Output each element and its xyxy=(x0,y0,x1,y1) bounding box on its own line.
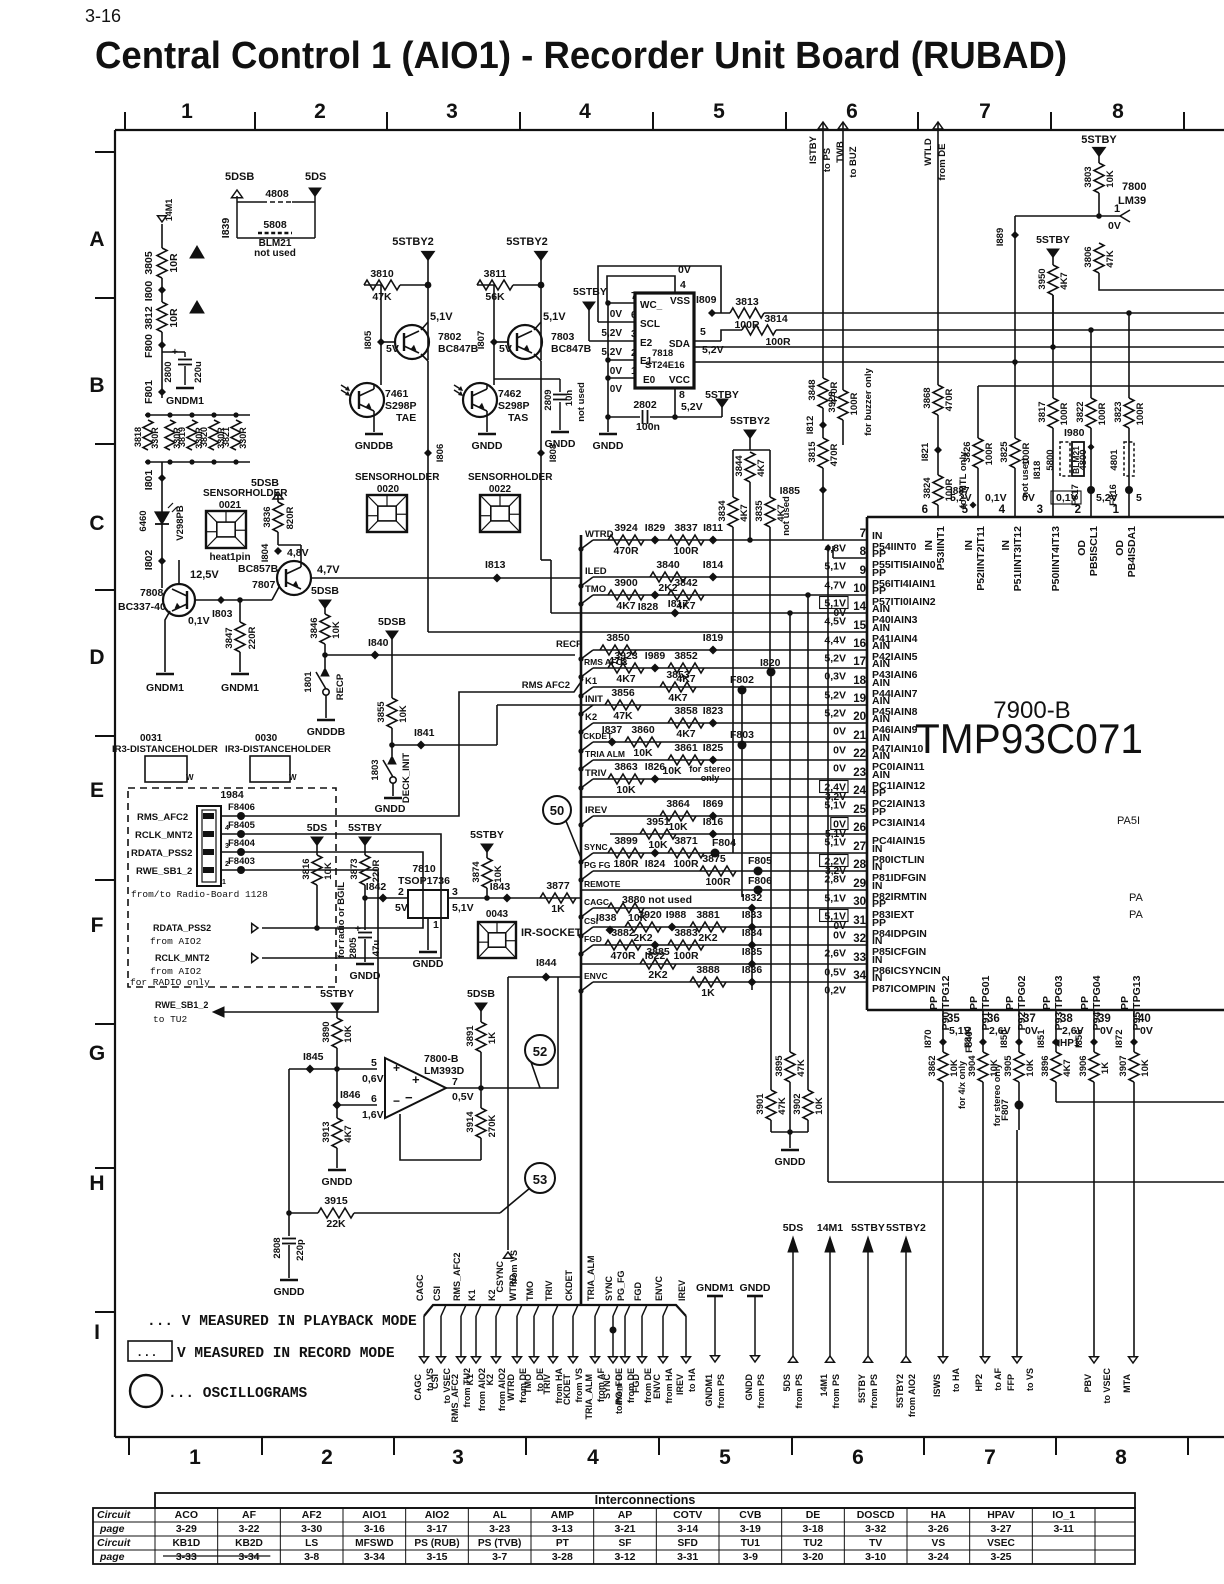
node F8403 xyxy=(237,866,245,874)
svg-text:I814: I814 xyxy=(703,559,724,571)
svg-text:3-34: 3-34 xyxy=(364,1551,385,1563)
resistor 3842 4K7 xyxy=(668,590,704,600)
svg-text:3811: 3811 xyxy=(484,268,507,280)
svg-text:for 4/x only: for 4/x only xyxy=(957,1061,967,1109)
wire I805 vertical xyxy=(380,285,382,385)
svg-text:0,6V: 0,6V xyxy=(362,1073,384,1085)
svg-text:1: 1 xyxy=(181,100,193,123)
svg-text:3856: 3856 xyxy=(611,687,635,699)
svg-text:3806: 3806 xyxy=(1083,246,1094,267)
ground GNDD under 2809 xyxy=(551,431,569,434)
svg-text:0031: 0031 xyxy=(140,733,163,744)
svg-text:PP: PP xyxy=(968,996,980,1010)
table grid xyxy=(93,1508,1135,1564)
svg-text:52: 52 xyxy=(533,1044,547,1059)
svg-text:K1: K1 xyxy=(467,1289,477,1301)
svg-text:4K7: 4K7 xyxy=(668,692,687,704)
svg-text:6: 6 xyxy=(852,1446,864,1469)
node I841 xyxy=(417,741,426,750)
node I808 xyxy=(537,449,545,457)
svg-text:3-24: 3-24 xyxy=(928,1551,949,1563)
wire drop PG_FG xyxy=(625,1305,630,1316)
svg-text:3868: 3868 xyxy=(922,387,933,408)
svg-text:3823: 3823 xyxy=(1113,401,1124,422)
svg-text:PP: PP xyxy=(928,996,940,1010)
svg-text:I889: I889 xyxy=(995,228,1006,247)
svg-text:1: 1 xyxy=(222,879,226,886)
resistor 3873 220R xyxy=(364,845,366,855)
connector CSYNC from VS xyxy=(504,1252,513,1258)
svg-text:2800: 2800 xyxy=(163,361,174,382)
svg-text:5DS: 5DS xyxy=(783,1222,803,1234)
legend record box xyxy=(128,1341,172,1361)
svg-text:to AF: to AF xyxy=(993,1368,1003,1391)
svg-text:10: 10 xyxy=(853,583,866,595)
node I817 xyxy=(671,609,680,618)
svg-text:!: ! xyxy=(196,249,199,259)
svg-text:from PS: from PS xyxy=(869,1374,879,1409)
svg-text:TU1: TU1 xyxy=(741,1538,761,1549)
svg-text:CKDET: CKDET xyxy=(562,1373,572,1405)
svg-text:GNDD: GNDD xyxy=(413,958,444,970)
resistor 3880 not used xyxy=(608,903,644,913)
wire ILED long xyxy=(311,577,581,579)
resistor 3907 10K xyxy=(1129,1052,1139,1082)
node I812 xyxy=(822,408,824,438)
svg-text:GNDD: GNDD xyxy=(375,803,406,815)
svg-text:I802: I802 xyxy=(143,550,155,571)
node I872 xyxy=(1130,1038,1138,1046)
svg-text:4800: 4800 xyxy=(1078,449,1089,470)
svg-text:10R: 10R xyxy=(168,308,180,328)
svg-text:7800: 7800 xyxy=(1122,181,1146,193)
resistor 3818 330R xyxy=(143,420,153,450)
wire pin35 to bottom connector xyxy=(942,1082,944,1360)
svg-text:1K: 1K xyxy=(701,987,715,999)
resistor 3877 1K xyxy=(540,893,576,903)
svg-text:3-15: 3-15 xyxy=(426,1551,447,1563)
resistor 3905 10K xyxy=(1014,1052,1024,1082)
ground GNDDB xyxy=(365,433,383,436)
node I832 xyxy=(748,904,757,913)
wire pin 36 down xyxy=(982,1010,984,1052)
svg-text:3-13: 3-13 xyxy=(552,1523,573,1535)
inductor 4808 (dashed, not used) xyxy=(236,196,238,238)
svg-text:VSEC: VSEC xyxy=(987,1538,1015,1549)
strikethrough 3-33 3-34 xyxy=(163,1555,270,1557)
svg-text:W: W xyxy=(289,773,297,782)
resistor 3834 4K7 xyxy=(732,450,734,497)
wire bus SDA xyxy=(776,329,1224,331)
svg-text:TAS: TAS xyxy=(508,412,528,424)
svg-text:3-30: 3-30 xyxy=(301,1523,322,1535)
wire pin 40 down xyxy=(1133,1010,1135,1052)
svg-text:10K: 10K xyxy=(398,705,409,723)
svg-text:3803: 3803 xyxy=(1083,166,1094,187)
wire 7810 pin1 to ground xyxy=(427,918,429,950)
wire RECP to trunk diag xyxy=(575,655,581,659)
wire 1803 to ground xyxy=(392,783,394,796)
svg-text:Circuit: Circuit xyxy=(97,1509,131,1521)
resistor 3823 100R xyxy=(1128,313,1130,398)
svg-text:0020: 0020 xyxy=(377,484,400,495)
column ticks bottom xyxy=(128,1437,130,1455)
resistor 3896 4K7 xyxy=(1051,1052,1061,1082)
svg-text:3882: 3882 xyxy=(611,927,635,939)
svg-text:F8405: F8405 xyxy=(228,820,256,831)
svg-text:5STBY2: 5STBY2 xyxy=(895,1374,905,1408)
svg-text:4: 4 xyxy=(587,1446,599,1469)
wire 7808 collector xyxy=(178,560,180,584)
svg-text:AMP: AMP xyxy=(551,1509,574,1521)
svg-text:5DSB: 5DSB xyxy=(467,988,495,1000)
svg-text:35: 35 xyxy=(947,1013,960,1025)
label ENVC xyxy=(581,982,593,991)
wire TWB vertical xyxy=(842,122,844,390)
resistor 3852 4K7 xyxy=(668,663,704,673)
svg-text:5DSB: 5DSB xyxy=(225,171,254,183)
svg-text:PG FG: PG FG xyxy=(584,860,611,870)
svg-text:5DS: 5DS xyxy=(307,822,327,834)
resistor 3846 10K xyxy=(324,608,326,614)
svg-text:5STBY2: 5STBY2 xyxy=(392,236,434,248)
svg-text:TRIV: TRIV xyxy=(585,768,607,779)
svg-text:5DSB: 5DSB xyxy=(311,585,339,597)
resistor 3812 10R xyxy=(157,302,167,332)
svg-text:3864: 3864 xyxy=(666,798,690,810)
svg-text:3-26: 3-26 xyxy=(928,1523,949,1535)
wire row pin 17 xyxy=(593,667,867,669)
wire grid vertical x771 xyxy=(770,672,772,1052)
svg-text:2K2: 2K2 xyxy=(648,969,667,981)
svg-text:5STBY2: 5STBY2 xyxy=(506,236,548,248)
svg-text:from PS: from PS xyxy=(756,1374,766,1409)
svg-text:6460: 6460 xyxy=(138,510,149,531)
svg-text:0V: 0V xyxy=(610,309,623,320)
ground GNDD under 7818 xyxy=(607,417,609,432)
svg-text:3888: 3888 xyxy=(696,964,720,976)
svg-text:−: − xyxy=(405,1090,413,1105)
node I825 xyxy=(709,756,718,765)
border frame xyxy=(115,129,1224,131)
node I813 xyxy=(493,574,502,583)
svg-text:OD: OD xyxy=(1114,540,1126,556)
svg-text:WC_: WC_ xyxy=(640,300,663,311)
svg-text:I826: I826 xyxy=(645,761,666,773)
label PG FG xyxy=(581,871,593,880)
svg-text:heat1pin: heat1pin xyxy=(209,552,250,563)
svg-text:3-29: 3-29 xyxy=(176,1523,197,1535)
transistor 7807 BC857B xyxy=(277,561,311,595)
connector HP2 to AF xyxy=(981,1357,990,1363)
wire 7808 emitter to ground xyxy=(165,611,170,672)
svg-text:S298P: S298P xyxy=(385,400,417,412)
table interconnections xyxy=(155,1493,1135,1508)
svg-text:53: 53 xyxy=(533,1172,547,1187)
svg-text:3855: 3855 xyxy=(376,701,387,723)
svg-text:AIO2: AIO2 xyxy=(425,1509,450,1521)
svg-text:3: 3 xyxy=(631,329,637,340)
svg-text:3-19: 3-19 xyxy=(740,1523,761,1535)
label TMO xyxy=(581,595,593,604)
svg-text:F801: F801 xyxy=(143,380,155,404)
svg-text:I842: I842 xyxy=(366,881,387,893)
wire drop K2 xyxy=(496,1305,501,1316)
label IREV xyxy=(581,816,593,825)
resistor 3901 47K xyxy=(770,1052,772,1090)
resistor 3875 100R xyxy=(700,866,736,876)
node I856 xyxy=(1090,1038,1098,1046)
svg-text:V MEASURED IN RECORD MODE: V MEASURED IN RECORD MODE xyxy=(177,1346,395,1362)
resistor 3855 10K xyxy=(391,639,393,698)
svg-text:GNDM1: GNDM1 xyxy=(221,682,259,694)
svg-text:220p: 220p xyxy=(295,1239,306,1261)
svg-text:from PS: from PS xyxy=(716,1374,726,1409)
svg-text:4,8V: 4,8V xyxy=(287,547,309,559)
connector CSI to VSEC xyxy=(437,1357,446,1363)
capacitor 2802 100n xyxy=(608,416,640,418)
svg-text:5STBY: 5STBY xyxy=(1081,134,1117,146)
resistor 3863 10K xyxy=(608,774,644,784)
svg-text:21: 21 xyxy=(853,730,866,742)
wire drop K1 xyxy=(476,1305,481,1316)
resistor 3885 2K2 xyxy=(640,959,676,969)
svg-text:1803: 1803 xyxy=(370,759,381,780)
node I826 xyxy=(651,775,660,784)
node I806 xyxy=(424,449,432,457)
label CSI xyxy=(581,927,593,936)
wire 7462 emitter to GNDD xyxy=(486,411,488,432)
svg-text:PS (RUB): PS (RUB) xyxy=(414,1538,459,1549)
svg-text:K2: K2 xyxy=(585,712,597,723)
wire base to 7807 xyxy=(272,587,279,600)
svg-text:for radio or BGIL: for radio or BGIL xyxy=(336,882,347,958)
node F803 xyxy=(738,741,747,750)
svg-text:100R: 100R xyxy=(673,950,699,962)
svg-text:2: 2 xyxy=(225,861,229,868)
wire grid vertical x752 xyxy=(769,527,771,672)
svg-text:3862: 3862 xyxy=(927,1055,938,1076)
svg-text:2809: 2809 xyxy=(543,389,554,410)
resistor 3871 100R xyxy=(668,848,704,858)
svg-text:I800: I800 xyxy=(143,281,155,302)
svg-text:PG_FG: PG_FG xyxy=(616,1270,626,1301)
svg-text:FGD: FGD xyxy=(584,934,602,944)
node I821 xyxy=(937,415,939,475)
node I846 xyxy=(337,1104,377,1106)
wire 52 diagonal xyxy=(531,1062,540,1088)
svg-text:ISWS: ISWS xyxy=(932,1374,942,1397)
svg-text:10K: 10K xyxy=(323,862,334,880)
svg-text:3-14: 3-14 xyxy=(677,1523,698,1535)
svg-text:29: 29 xyxy=(853,878,866,890)
svg-text:I801: I801 xyxy=(143,470,155,491)
svg-text:20: 20 xyxy=(853,711,866,723)
svg-text:ENVC: ENVC xyxy=(654,1275,664,1301)
svg-text:3871: 3871 xyxy=(674,835,698,847)
svg-text:TAE: TAE xyxy=(396,412,416,424)
svg-text:IR-SOCKET: IR-SOCKET xyxy=(521,927,582,939)
wire to cap 2809 xyxy=(494,378,560,380)
svg-text:3-11: 3-11 xyxy=(1053,1523,1074,1535)
node F807 xyxy=(1018,1082,1020,1105)
svg-text:I843: I843 xyxy=(490,881,511,893)
wire fanout bus xyxy=(424,1305,686,1316)
wire drop TRIA_ALM xyxy=(595,1305,600,1316)
svg-text:FGD: FGD xyxy=(631,1374,641,1393)
connector PBV to VSEC xyxy=(1090,1357,1099,1363)
svg-text:GNDD: GNDD xyxy=(744,1374,754,1401)
wire 7808 base xyxy=(195,599,272,601)
wire 50 diagonal xyxy=(566,821,581,858)
wire rail 3844 xyxy=(749,438,751,450)
svg-text:100R: 100R xyxy=(984,443,995,466)
svg-text:I872: I872 xyxy=(1114,1030,1125,1049)
wire drop WTRD xyxy=(517,1305,522,1316)
resistor 3817 100R xyxy=(1052,347,1054,398)
svg-text:47K: 47K xyxy=(372,291,392,303)
bus taps right xyxy=(1126,310,1132,316)
svg-text:PP: PP xyxy=(1041,996,1053,1010)
connector FGD from DE xyxy=(638,1357,647,1363)
svg-text:3858: 3858 xyxy=(674,705,698,717)
connector TRIA_ALM from AF xyxy=(591,1357,600,1363)
resistor 3856 47K xyxy=(605,700,641,710)
svg-text:3: 3 xyxy=(225,843,229,850)
svg-text:to HA: to HA xyxy=(687,1368,697,1392)
svg-text:470R: 470R xyxy=(610,950,636,962)
node I870 xyxy=(939,1038,947,1046)
svg-text:3840: 3840 xyxy=(656,559,680,571)
node I820 xyxy=(767,668,776,677)
svg-text:3883: 3883 xyxy=(674,927,698,939)
svg-text:3874: 3874 xyxy=(471,861,482,883)
svg-text:MFSWD: MFSWD xyxy=(355,1538,393,1549)
svg-text:17: 17 xyxy=(853,656,866,668)
svg-text:3: 3 xyxy=(446,100,458,123)
node I822 xyxy=(651,941,660,950)
box 1984 dashed xyxy=(128,788,336,987)
svg-text:3-33: 3-33 xyxy=(176,1551,197,1563)
svg-text:38: 38 xyxy=(1060,1013,1073,1025)
wire 7803 emitter down xyxy=(534,354,541,361)
svg-text:from VS: from VS xyxy=(509,1250,519,1285)
svg-text:I980: I980 xyxy=(1064,427,1085,439)
svg-text:3-17: 3-17 xyxy=(426,1523,447,1535)
svg-text:2K2: 2K2 xyxy=(633,932,652,944)
node F804 xyxy=(711,849,720,858)
connector ISWS to HA xyxy=(939,1357,948,1363)
svg-text:47K: 47K xyxy=(777,1097,788,1115)
svg-text:37: 37 xyxy=(1023,1013,1036,1025)
wire 7462 collector xyxy=(486,385,488,389)
svg-text:3905: 3905 xyxy=(1003,1055,1014,1077)
svg-text:5: 5 xyxy=(719,1446,731,1469)
wire feedback left riser xyxy=(288,1069,290,1213)
wire pin36 to bottom connector xyxy=(982,1082,984,1360)
resistor 3902 10K xyxy=(807,1089,809,1091)
svg-text:... V MEASURED IN PLAYBACK MOD: ... V MEASURED IN PLAYBACK MODE xyxy=(147,1314,417,1330)
pin 6 wire SCL xyxy=(598,321,635,323)
wire pin 38 down xyxy=(1055,1010,1057,1052)
wire 7807 collector up xyxy=(300,545,302,567)
wire I801 xyxy=(161,462,163,512)
svg-text:100R: 100R xyxy=(673,858,699,870)
wire WTLD vertical xyxy=(937,122,939,385)
svg-text:PP: PP xyxy=(1079,996,1091,1010)
svg-text:39: 39 xyxy=(1098,1013,1111,1025)
wire bus SCL xyxy=(764,312,1224,314)
svg-text:I804: I804 xyxy=(260,543,271,562)
svg-text:3824: 3824 xyxy=(922,477,933,499)
svg-text:RMS_AFC2: RMS_AFC2 xyxy=(137,812,188,823)
label INIT xyxy=(581,705,593,714)
svg-text:3: 3 xyxy=(1037,504,1043,516)
svg-text:3805: 3805 xyxy=(143,251,155,275)
node I842 xyxy=(379,894,388,903)
wire grid vertical x808 xyxy=(807,595,809,1090)
svg-text:0V: 0V xyxy=(1100,1025,1113,1037)
connector PG_FG from DE xyxy=(621,1357,630,1363)
svg-text:10K: 10K xyxy=(633,747,653,759)
svg-text:I818: I818 xyxy=(1032,461,1043,480)
resistor 3810 47K xyxy=(362,284,381,286)
svg-text:3815: 3815 xyxy=(807,441,818,463)
node I814 xyxy=(709,573,718,582)
wire F8403 RWE path xyxy=(224,870,378,1012)
wire pin 35 down xyxy=(942,1010,944,1052)
ground GNDD under 3913 xyxy=(328,1169,346,1172)
svg-text:GNDD: GNDD xyxy=(740,1282,771,1294)
svg-text:SYNC: SYNC xyxy=(604,1275,614,1301)
svg-text:I813: I813 xyxy=(485,559,506,571)
resistor 3904 10K xyxy=(978,1052,988,1082)
node F840 xyxy=(979,1038,987,1046)
wire row pin 20 xyxy=(593,722,867,724)
svg-text:7: 7 xyxy=(979,100,991,123)
svg-text:F8406: F8406 xyxy=(228,802,255,813)
ground GNDD under 3902 xyxy=(789,1132,791,1148)
wire 7810 pin3 xyxy=(448,897,581,899)
svg-text:4,7V: 4,7V xyxy=(317,564,340,576)
connector SYNC to/from DE xyxy=(609,1357,618,1363)
svg-text:3818: 3818 xyxy=(133,427,143,447)
svg-text:RWE_SB1_2: RWE_SB1_2 xyxy=(155,1000,208,1010)
svg-text:2: 2 xyxy=(321,1446,333,1469)
svg-text:3890: 3890 xyxy=(321,1021,332,1042)
svg-text:7802: 7802 xyxy=(438,331,462,343)
svg-text:3835: 3835 xyxy=(754,500,765,522)
svg-text:5DS: 5DS xyxy=(782,1374,792,1392)
svg-text:330R: 330R xyxy=(238,427,248,449)
svg-text:3-7: 3-7 xyxy=(492,1551,507,1563)
svg-text:8: 8 xyxy=(1112,100,1124,123)
svg-text:3860: 3860 xyxy=(631,724,655,736)
svg-text:VS: VS xyxy=(932,1538,946,1549)
svg-text:56K: 56K xyxy=(485,291,505,303)
svg-text:B: B xyxy=(89,374,104,397)
wire SDA drop xyxy=(721,330,742,341)
wire row pin 18 xyxy=(593,686,867,688)
resistor 3950 4K7 xyxy=(1052,257,1054,265)
svg-text:0V: 0V xyxy=(833,745,846,757)
wire stereo bus xyxy=(1056,1101,1224,1103)
svg-text:ISTBY: ISTBY xyxy=(808,135,819,164)
ground GNDM1 under 2800 xyxy=(176,387,194,390)
svg-text:0V: 0V xyxy=(1108,220,1121,232)
svg-text:3-16: 3-16 xyxy=(364,1523,385,1535)
svg-text:5STBY2: 5STBY2 xyxy=(886,1222,926,1234)
